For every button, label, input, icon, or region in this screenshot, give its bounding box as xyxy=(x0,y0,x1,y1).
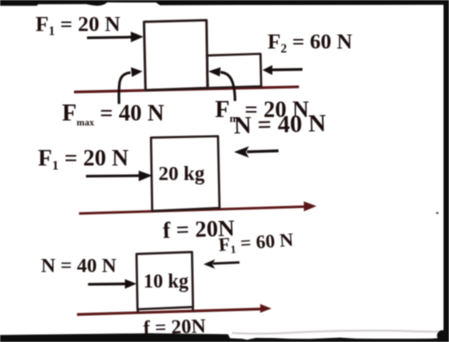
bottom border bar with torn top edge xyxy=(0,333,449,342)
block A (large block, top) xyxy=(144,20,208,90)
right border bar xyxy=(444,0,449,334)
force arrow N (bottom) xyxy=(88,283,127,286)
friction arrow Fm (curved, on block B) xyxy=(221,72,236,101)
reaction arrow pointing left (bottom) xyxy=(213,262,240,263)
ground line with arrow (bottom) xyxy=(77,309,261,315)
svg-text:N = 40 N: N = 40 N xyxy=(233,110,326,139)
friction arrow Fmax (curved, on block A) xyxy=(119,73,131,104)
force arrow F2 xyxy=(272,68,303,71)
svg-text:Fmax = 40 N: Fmax = 40 N xyxy=(62,101,164,129)
svg-text:F1 = 20 N: F1 = 20 N xyxy=(36,12,121,38)
ground line with arrow (middle) xyxy=(79,207,305,214)
svg-text:F2 = 60 N: F2 = 60 N xyxy=(268,30,353,56)
stray speck xyxy=(436,212,439,214)
svg-text:F1 = 20 N: F1 = 20 N xyxy=(38,146,129,173)
force arrow F1 (middle) xyxy=(86,174,139,177)
reaction arrow pointing left (middle) xyxy=(247,151,279,152)
block 10 kg corner stubs down to ground xyxy=(137,309,140,313)
torn edge blob at right border foot xyxy=(437,330,449,339)
ground line (top diagram) xyxy=(74,87,299,92)
block 20 kg xyxy=(151,136,220,211)
svg-text:N = 40 N: N = 40 N xyxy=(41,255,117,277)
block 10 kg xyxy=(137,252,194,309)
faint torn paper shadow line xyxy=(232,331,443,334)
svg-text:10 kg: 10 kg xyxy=(144,272,189,293)
svg-text:f = 20N: f = 20N xyxy=(143,315,207,339)
force arrow F1 (top) xyxy=(87,36,132,39)
block B (small block, top) xyxy=(207,54,261,88)
svg-text:20 kg: 20 kg xyxy=(159,163,205,185)
top border bar xyxy=(0,0,449,6)
svg-text:F1 = 60 N: F1 = 60 N xyxy=(218,230,295,257)
